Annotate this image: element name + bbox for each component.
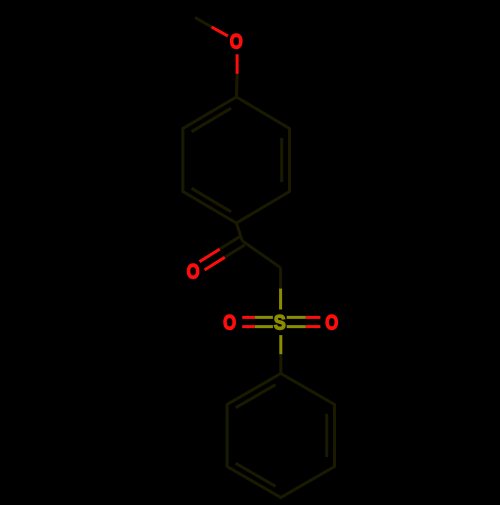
ring benzene2 inner double bond B4-B5 — [236, 463, 276, 486]
wire S=O right lower line oxygen half — [306, 325, 321, 328]
wire C7-CH2 bond — [242, 241, 280, 268]
ring benzene1 inner double bond C2-C3 — [280, 138, 283, 182]
wire CH3-O bond carbon half — [195, 18, 212, 27]
svg-text:O: O — [187, 260, 200, 283]
wire S=O right lower line sulfur half — [287, 325, 306, 328]
wire S-B1 bond carbon half — [279, 354, 282, 373]
wire C4-C7 bond — [236, 223, 242, 241]
ring benzene2 inner double bond B6-B1 — [236, 385, 276, 408]
ring benzene1 inner double bond C4-C5 — [192, 188, 232, 212]
wire C7=O double bond upper line carbon half — [220, 237, 240, 249]
ring benzene2 inner double bond B2-B3 — [325, 414, 328, 457]
wire S=O left lower line oxygen half — [242, 325, 255, 328]
ring benzene2 outline — [227, 374, 334, 498]
ring benzene1 inner double bond C6-C1 — [192, 108, 232, 132]
wire S=O left upper line sulfur half — [255, 316, 273, 319]
wire C7=O double bond lower line oxygen half — [205, 257, 225, 270]
wire O-C1 bond carbon half — [235, 74, 239, 97]
svg-text:O: O — [223, 312, 236, 335]
wire CH3-O bond oxygen half — [212, 27, 228, 36]
wire CH2-S bond sulfur half — [279, 289, 282, 310]
wire C7=O double bond upper line oxygen half — [200, 249, 220, 262]
wire C7=O double bond lower line carbon half — [225, 245, 245, 257]
ring benzene1 outline — [183, 97, 290, 223]
wire S=O right upper line sulfur half — [287, 316, 306, 319]
wire O-C1 bond oxygen half — [236, 54, 239, 74]
svg-text:O: O — [230, 31, 243, 54]
wire S=O left upper line oxygen half — [242, 316, 255, 319]
svg-text:S: S — [274, 312, 286, 335]
wire S=O right upper line oxygen half — [306, 316, 321, 319]
wire CH2-S bond carbon half — [279, 268, 282, 289]
svg-text:O: O — [325, 311, 338, 334]
wire S=O left lower line sulfur half — [255, 325, 273, 328]
wire S-B1 bond sulfur half — [279, 335, 282, 354]
